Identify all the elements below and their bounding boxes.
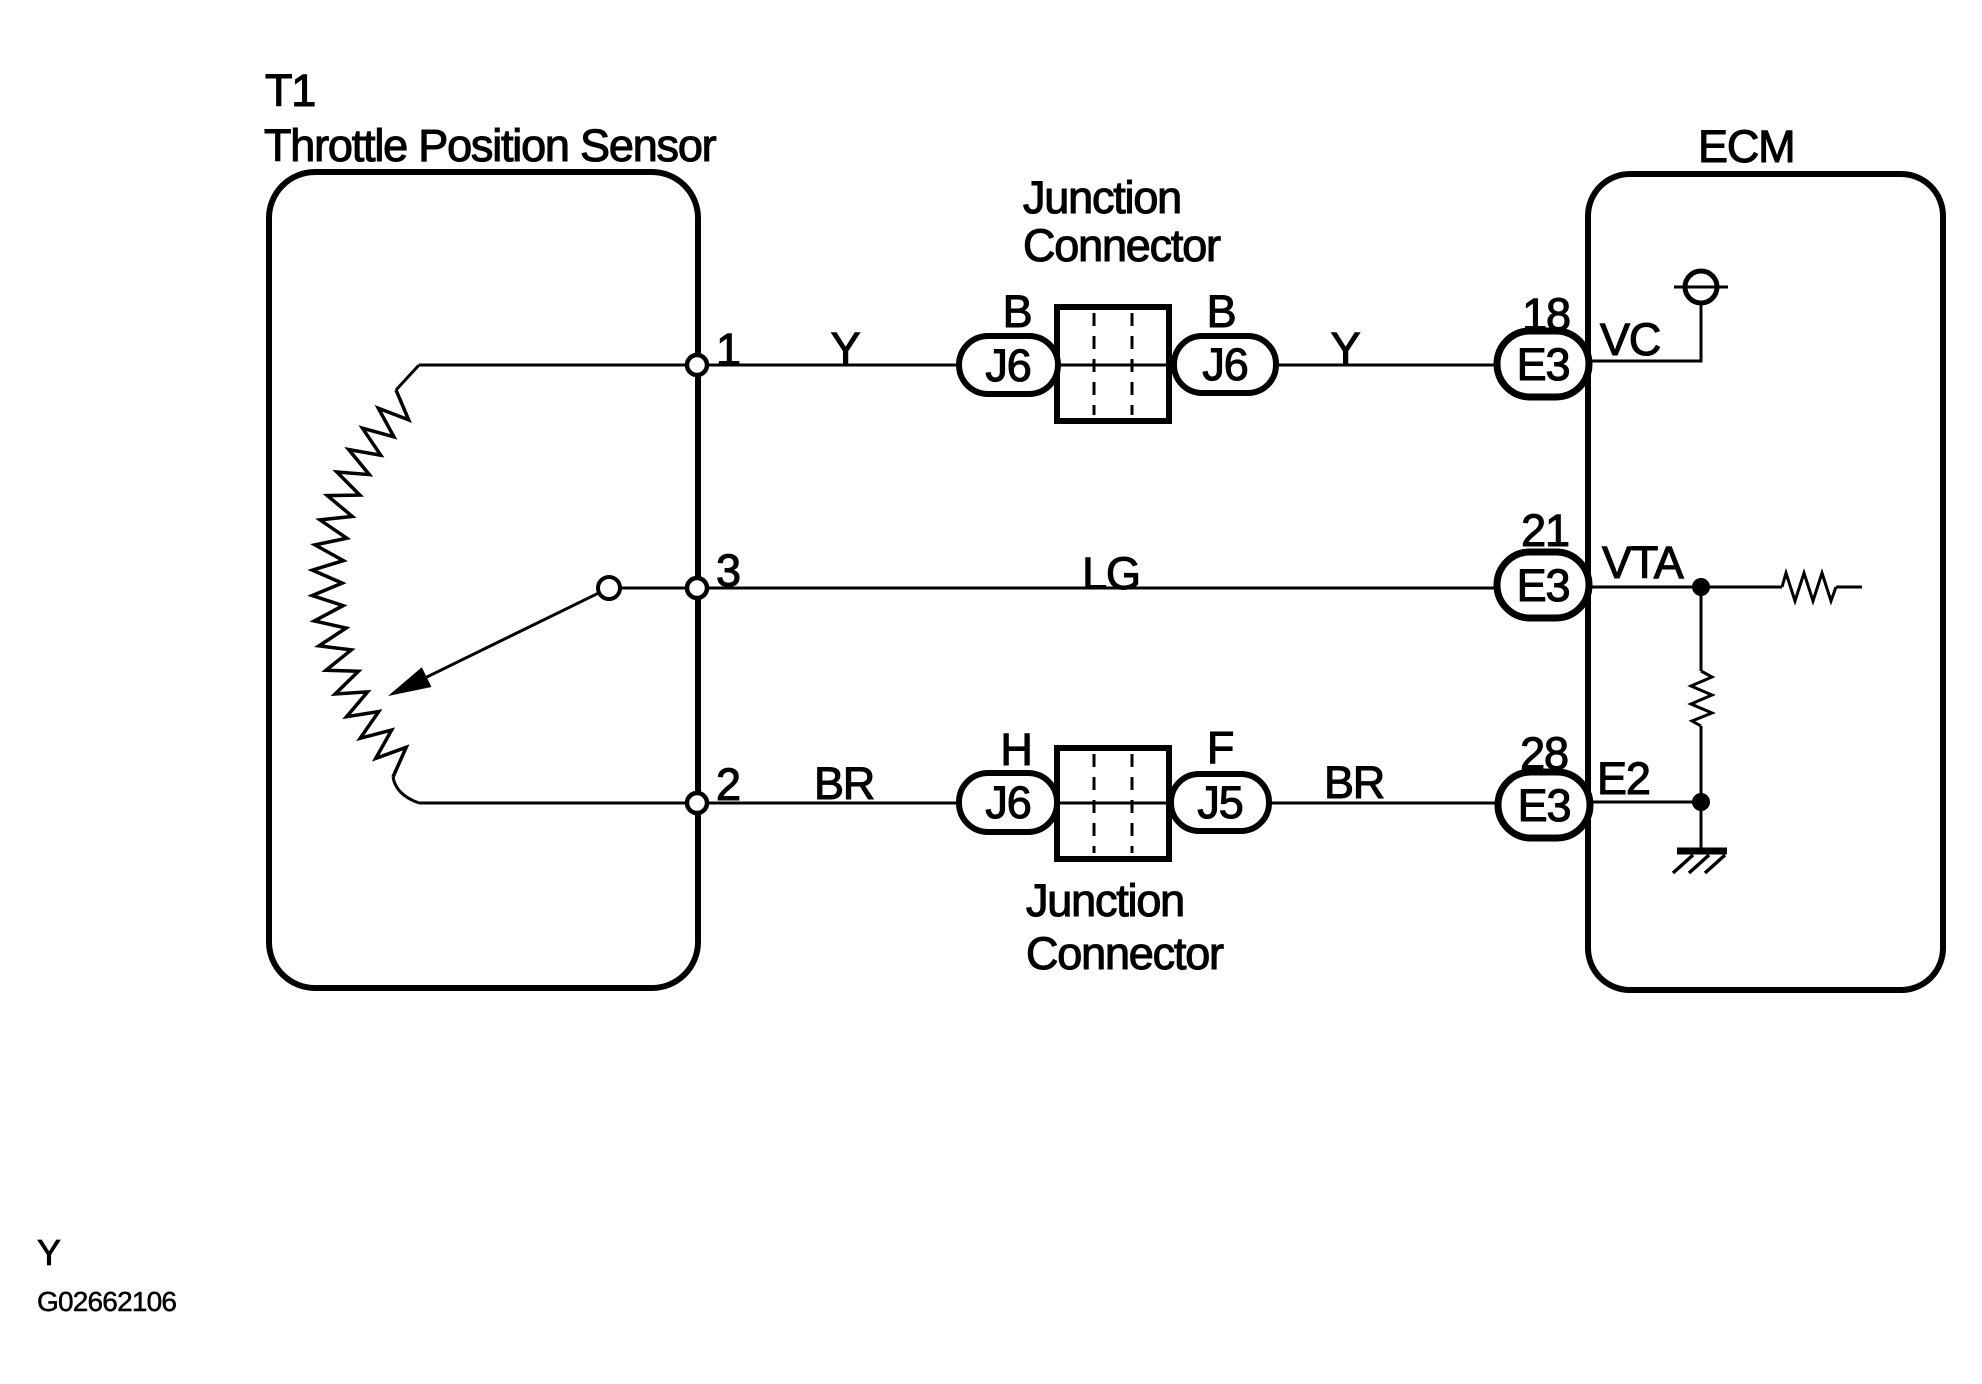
svg-text:Y: Y [37, 1232, 61, 1273]
wire VC inside ECM [1589, 304, 1701, 361]
wire row 3 (E2) sensor to ECM [419, 802, 1497, 805]
wire VTA inside ECM [1589, 586, 1782, 589]
svg-text:J6: J6 [985, 340, 1030, 391]
svg-text:Junction: Junction [1023, 172, 1181, 223]
junction connector box (bottom) [1057, 748, 1169, 859]
ground [1677, 848, 1727, 855]
wire sensor top diagonal [396, 365, 419, 390]
connector E3 pin 28 [1498, 772, 1590, 838]
node E2 junction [1692, 793, 1710, 811]
svg-text:2: 2 [716, 759, 740, 810]
svg-text:18: 18 [1522, 289, 1570, 340]
resistor (vertical) [1691, 671, 1712, 726]
node VTA junction [1692, 578, 1710, 596]
svg-text:Connector: Connector [1023, 220, 1221, 271]
connector E3 pin 21 [1497, 552, 1589, 618]
svg-text:21: 21 [1521, 505, 1569, 556]
svg-text:VC: VC [1600, 314, 1660, 365]
wiper contact circle [598, 577, 620, 599]
connector E3 pin 18 [1497, 331, 1589, 397]
svg-text:28: 28 [1520, 728, 1568, 779]
svg-text:B: B [1207, 286, 1236, 337]
wire E2 inside ECM [1590, 801, 1701, 804]
svg-text:3: 3 [716, 545, 740, 596]
wire sensor bottom diagonal [393, 777, 419, 803]
svg-text:Y: Y [831, 323, 861, 374]
svg-text:Junction: Junction [1026, 875, 1184, 926]
ECM box [1588, 174, 1943, 990]
svg-text:G02662106: G02662106 [37, 1286, 176, 1317]
connector J6 pin H (row3 left) [959, 773, 1057, 832]
svg-text:H: H [1000, 724, 1031, 775]
wire row 1 (VC) sensor to ECM [419, 364, 1497, 367]
svg-text:E3: E3 [1517, 339, 1570, 390]
svg-text:E2: E2 [1597, 753, 1650, 804]
svg-text:Throttle Position Sensor: Throttle Position Sensor [264, 120, 717, 171]
connector J6 pin B (row1 right) [1174, 336, 1276, 393]
svg-text:T1: T1 [265, 65, 315, 116]
svg-text:Y: Y [1331, 323, 1361, 374]
junction connector box (top) [1057, 307, 1169, 421]
svg-text:E3: E3 [1517, 560, 1570, 611]
power symbol circle [1685, 271, 1717, 303]
wire pull-down vertical [1700, 587, 1703, 671]
resistor (horizontal, VTA) [1782, 573, 1836, 601]
svg-text:B: B [1003, 286, 1032, 337]
svg-text:VTA: VTA [1602, 537, 1684, 588]
resistor potentiometer track [312, 390, 409, 777]
svg-text:LG: LG [1082, 548, 1140, 599]
pin 3 node [687, 578, 707, 598]
svg-text:Connector: Connector [1026, 928, 1224, 979]
svg-text:1: 1 [716, 324, 740, 375]
wire to ground [1700, 802, 1703, 850]
svg-text:J6: J6 [1202, 339, 1247, 390]
pin 1 node [687, 355, 707, 375]
connector J6 pin B (row1 left) [959, 336, 1058, 394]
svg-text:E3: E3 [1518, 780, 1571, 831]
svg-text:BR: BR [1324, 757, 1384, 808]
wire row 2 (VTA) wiper to ECM [620, 587, 1497, 590]
svg-text:J5: J5 [1197, 777, 1242, 828]
connector J5 pin F (row3 right) [1171, 774, 1269, 831]
svg-text:F: F [1207, 722, 1233, 773]
svg-text:J6: J6 [985, 777, 1030, 828]
wiper arm arrow [415, 593, 599, 683]
svg-text:BR: BR [814, 758, 874, 809]
throttle position sensor box T1 [269, 172, 698, 988]
svg-text:ECM: ECM [1698, 121, 1794, 172]
pin 2 node [687, 793, 707, 813]
